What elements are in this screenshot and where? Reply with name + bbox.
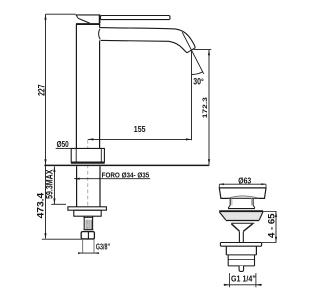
arrow up top of 227 [44, 14, 46, 20]
wire extension line from handle top to dimension line [46, 13, 76, 15]
drain stem [238, 232, 240, 243]
underline leader of O50 label [56, 147, 71, 149]
threaded tailpiece [83, 216, 85, 230]
drain funnel [231, 224, 239, 232]
base flange O50 [71, 148, 104, 162]
drain threaded tail G1 1/4 [227, 255, 229, 266]
drain lower plate [220, 243, 261, 247]
wire vertical extension from spout tip down to 155 line [191, 50, 193, 140]
dimension 4-65 extension lines [257, 210, 277, 212]
G3/8 dimension line [78, 252, 99, 254]
svg-text:227: 227 [36, 85, 46, 96]
spout tube [100, 28, 195, 48]
dimension 172.3 line [208, 50, 210, 165]
svg-text:172.3: 172.3 [202, 97, 209, 119]
dimension 227 / 473.4 shared vertical dimension line [45, 14, 47, 238]
drain neck [229, 199, 231, 206]
spout tip face (30deg cut) [187, 48, 195, 53]
arrow down 473.4 at bottom [44, 233, 46, 239]
shank below deck [76, 166, 78, 206]
svg-text:30°: 30° [193, 76, 204, 86]
svg-text:59.3MAX: 59.3MAX [45, 170, 55, 199]
dimension 59.3MAX line [53, 166, 55, 204]
G3/8 dimension extension lines [82, 240, 84, 254]
svg-text:4 - 65: 4 - 65 [267, 214, 277, 239]
drain cylinder body [225, 246, 227, 255]
30 degree arc [192, 72, 203, 75]
drain bell flange [219, 212, 263, 221]
dimension G1 1/4 extension lines [228, 273, 230, 287]
handle wedge [76, 14, 99, 16]
30 degree leg line [182, 32, 204, 74]
hex nut G3/8 [81, 232, 94, 239]
wire tick at bottom of 59.3MAX [51, 203, 66, 205]
mounting nut block [74, 210, 101, 216]
centerline of body (dashed) [87, 140, 89, 240]
dimension 155 line [88, 138, 192, 140]
wire horizontal extension from spout tip to 172.3 line [194, 49, 212, 51]
svg-text:G3/8": G3/8" [96, 243, 110, 252]
svg-text:Ø50: Ø50 [57, 139, 69, 149]
wire extension line at nut bottom (473.4) [42, 238, 95, 240]
drain pop-up pin [239, 266, 244, 272]
svg-text:155: 155 [134, 124, 146, 134]
svg-text:FORO Ø34- Ø35: FORO Ø34- Ø35 [102, 170, 150, 179]
drain cap under-dome [228, 196, 259, 198]
dimension G1 1/4 line [224, 284, 262, 286]
dimension O63 line [219, 183, 266, 185]
faucet body column [75, 24, 77, 148]
svg-text:G1 1/4": G1 1/4" [231, 274, 256, 284]
drain cap [219, 188, 266, 199]
handle lever bar [100, 16, 170, 20]
base gasket thick line [71, 162, 105, 164]
deck / countertop line [44, 164, 209, 166]
washer plate [68, 207, 107, 210]
svg-text:Ø63: Ø63 [238, 177, 251, 186]
arrow down 227 at deck [44, 159, 46, 165]
spout-body fillet arc [99, 29, 101, 40]
dimension 4-65 line [275, 211, 277, 242]
FORO label leader with arrow [74, 178, 150, 180]
drain neck flare shelf [228, 205, 255, 208]
